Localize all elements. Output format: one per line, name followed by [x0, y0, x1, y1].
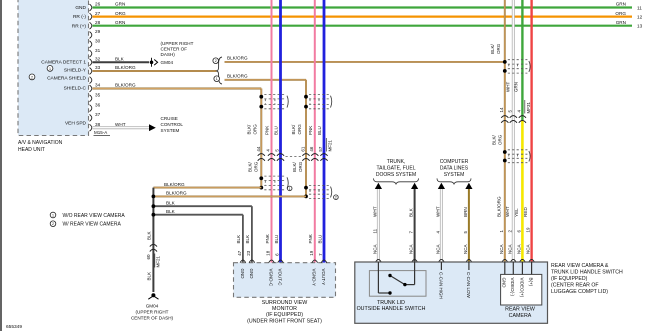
system arrows text TRUNK TAILGATE FUEL DOORS SYSTEM — [374, 159, 419, 184]
wire BLK/ORG variant 2 — [225, 55, 505, 62]
svg-text:ORG: ORG — [253, 124, 258, 135]
wire labels PNK BLU above monitor pins 18 6 — [265, 234, 279, 243]
svg-text:VOUT-C: VOUT-C — [277, 269, 282, 287]
svg-text:CAMERA: CAMERA — [509, 313, 532, 319]
wire ORG pin 27 (RR -) to pin 12 — [73, 11, 643, 20]
svg-text:C-CAN HIGH: C-CAN HIGH — [438, 272, 443, 299]
svg-text:57: 57 — [318, 146, 323, 152]
wire labels group C bottom — [496, 196, 528, 217]
svg-text:VOUT-Y: VOUT-Y — [321, 269, 326, 286]
svg-text:BLK/ORG: BLK/ORG — [496, 196, 501, 217]
wire BLK row 4 to monitor pin 47 — [153, 209, 243, 263]
shield group C upper — [503, 60, 530, 73]
svg-text:RED: RED — [523, 207, 528, 217]
svg-text:BLU: BLU — [274, 126, 279, 135]
svg-text:HEAD UNIT: HEAD UNIT — [18, 147, 45, 153]
svg-text:BLK/: BLK/ — [292, 161, 297, 172]
svg-text:BLK/: BLK/ — [291, 124, 296, 135]
svg-text:SHIELD-Y: SHIELD-Y — [64, 68, 87, 74]
svg-text:11: 11 — [637, 6, 642, 11]
connector MF21 (ground wire) — [146, 244, 160, 267]
wire BRN computer pin 5 — [463, 183, 473, 262]
wire labels group B below connector — [292, 161, 303, 172]
svg-text:C-CAN LOW: C-CAN LOW — [466, 272, 471, 299]
svg-text:19: 19 — [526, 227, 531, 233]
C-CAN HIGH / C-CAN LOW stubs — [438, 262, 471, 299]
empty pin 31 — [95, 48, 101, 53]
svg-text:32: 32 — [95, 57, 101, 62]
svg-text:DATA LINES: DATA LINES — [440, 165, 469, 171]
connector M15-A pin brackets — [90, 4, 111, 135]
svg-text:PNK: PNK — [308, 126, 313, 135]
empty pin 37 — [95, 112, 101, 117]
svg-text:BRN: BRN — [463, 207, 468, 217]
wire RED group C vertical — [530, 0, 532, 262]
wire BLK/ORG row 1 (shield A drain) — [153, 182, 261, 188]
svg-text:BLK: BLK — [115, 57, 125, 62]
svg-text:WHT: WHT — [372, 206, 377, 217]
empty pin 35 — [95, 93, 101, 98]
svg-text:33: 33 — [95, 65, 101, 70]
svg-text:NCA: NCA — [372, 244, 377, 254]
svg-text:ORG: ORG — [497, 134, 502, 145]
svg-text:CONTROL: CONTROL — [161, 122, 184, 127]
surround view monitor box — [234, 263, 336, 325]
wire WHT computer pin 4 — [435, 183, 445, 262]
svg-text:(UPPER RIGHT: (UPPER RIGHT — [136, 310, 169, 315]
wire GRN pin 28 (RR +) to pin 13 — [72, 20, 643, 29]
svg-text:TRUNK LID: TRUNK LID — [377, 300, 405, 306]
svg-text:VGND-C: VGND-C — [268, 269, 273, 287]
monitor pin brackets and numbers — [237, 250, 327, 262]
svg-text:MONITOR: MONITOR — [272, 306, 297, 312]
svg-text:YEL: YEL — [514, 208, 519, 217]
shield group B lower, variant 2 — [304, 185, 338, 199]
svg-text:(UNDER RIGHT FRONT SEAT): (UNDER RIGHT FRONT SEAT) — [247, 318, 322, 324]
svg-text:BLK/: BLK/ — [247, 124, 252, 135]
svg-text:GRN: GRN — [115, 20, 125, 25]
svg-text:BLU: BLU — [317, 126, 322, 135]
svg-text:BLK: BLK — [166, 200, 176, 205]
svg-text:28: 28 — [95, 20, 101, 25]
wire WHT pin 38 (VEH SPD) — [65, 121, 149, 128]
svg-text:NCA: NCA — [507, 244, 512, 254]
svg-text:BLK/ORG: BLK/ORG — [166, 191, 187, 196]
wire BLK/ORG pin 33 (SHIELD-Y) — [47, 65, 217, 73]
svg-text:B(+): B(+) — [529, 278, 534, 287]
svg-text:ORG: ORG — [297, 124, 302, 135]
svg-text:MF21: MF21 — [156, 256, 161, 268]
wire labels BLK BLK above monitor pins 47 23 — [236, 235, 250, 244]
svg-text:SYSTEM: SYSTEM — [161, 128, 180, 133]
svg-text:BLK/ORG: BLK/ORG — [227, 55, 248, 60]
node variant 2 — [213, 58, 219, 64]
svg-text:BLK: BLK — [146, 231, 151, 240]
A/V & navigation head unit box — [18, 0, 89, 153]
svg-text:GM04: GM04 — [161, 60, 174, 65]
wire GRN group C upper / YEL lower — [521, 0, 523, 262]
svg-text:14: 14 — [499, 107, 504, 113]
wire labels group C above — [490, 43, 518, 92]
legend variant 1 — [50, 212, 125, 219]
svg-text:BLK/ORG: BLK/ORG — [164, 182, 185, 187]
wire BLK row 3 to monitor pin 23 — [153, 200, 252, 262]
drawing number — [6, 324, 22, 330]
wire BLK ground vertical — [146, 188, 155, 292]
svg-text:LUGGAGE COMPT LID): LUGGAGE COMPT LID) — [551, 289, 608, 295]
svg-text:31: 31 — [95, 48, 101, 53]
svg-text:NCA: NCA — [499, 244, 504, 254]
svg-text:BLK/: BLK/ — [490, 43, 495, 54]
wire BLK pin 32 (CAMERA DETECT 1) — [41, 57, 149, 66]
monitor pin names — [240, 269, 326, 287]
wire PNK group A — [271, 0, 273, 263]
svg-text:VGND-Y: VGND-Y — [312, 269, 317, 287]
wire labels group A below connector — [247, 161, 258, 172]
svg-text:WHT: WHT — [115, 122, 126, 127]
svg-text:BLK/ORG: BLK/ORG — [115, 83, 136, 88]
svg-text:CAMERA SHIELD: CAMERA SHIELD — [47, 76, 86, 82]
shield group A upper — [259, 95, 288, 109]
svg-text:TRUNK LID HANDLE SWITCH: TRUNK LID HANDLE SWITCH — [551, 270, 623, 276]
svg-text:23: 23 — [246, 250, 251, 256]
svg-text:30: 30 — [95, 39, 101, 44]
wire BLK/ORG row 2 (shield B drain) — [153, 191, 306, 197]
svg-text:VEH SPD: VEH SPD — [65, 121, 87, 127]
wire labels group B above connector — [291, 124, 322, 135]
svg-text:27: 27 — [95, 11, 101, 16]
wire GRN pin 26 (GND) to pin 11 — [75, 2, 642, 11]
svg-text:TRUNK,: TRUNK, — [387, 159, 406, 165]
empty pin 30 — [95, 39, 101, 44]
label CAMERA SHIELD — [29, 74, 86, 82]
wire BLU group B — [323, 0, 326, 263]
svg-text:VIDEO(-): VIDEO(-) — [510, 278, 515, 297]
svg-text:ORG: ORG — [253, 161, 258, 172]
wire WHT group C vertical — [512, 0, 515, 262]
group C pins and NCA — [499, 227, 535, 262]
svg-text:TAILGATE, FUEL: TAILGATE, FUEL — [377, 165, 416, 171]
svg-text:GND: GND — [249, 269, 254, 280]
trunk lid outside handle switch — [357, 262, 426, 312]
rear view camera unit — [501, 262, 542, 319]
svg-text:MF21: MF21 — [327, 140, 332, 152]
svg-text:44: 44 — [256, 146, 261, 152]
ground GM04 lower — [131, 293, 174, 320]
svg-text:2: 2 — [335, 196, 337, 200]
wire BLK/ORG pin 34 (SHIELD-C) — [64, 83, 262, 92]
svg-text:NCA: NCA — [526, 244, 531, 254]
svg-text:BLK: BLK — [236, 235, 241, 244]
svg-text:ORG: ORG — [496, 43, 501, 54]
svg-text:(UPPER RIGHT: (UPPER RIGHT — [161, 41, 194, 46]
shield group C lower — [503, 150, 530, 163]
svg-text:(IF EQUIPPED): (IF EQUIPPED) — [551, 276, 588, 282]
connector MF21 (in-line, groups A and B) — [256, 138, 333, 161]
svg-text:OUTSIDE HANDLE SWITCH: OUTSIDE HANDLE SWITCH — [357, 306, 426, 312]
svg-text:GRN: GRN — [514, 82, 519, 92]
svg-text:36: 36 — [95, 102, 101, 107]
shield group A lower, variant 1 — [259, 176, 292, 191]
svg-text:A/V & NAVIGATION: A/V & NAVIGATION — [18, 140, 63, 146]
wire labels group A above connector — [247, 124, 279, 135]
svg-text:BLU: BLU — [317, 235, 322, 244]
wire WHT trunk pin 11 — [372, 183, 382, 262]
wire PNK group B — [314, 0, 316, 263]
svg-text:SHIELD-C: SHIELD-C — [64, 86, 87, 92]
svg-text:DASH): DASH) — [161, 52, 176, 57]
svg-text:ORG: ORG — [298, 161, 303, 172]
wire BLK trunk pin 7 — [409, 183, 419, 262]
svg-text:(CENTER REAR OF: (CENTER REAR OF — [551, 283, 599, 289]
svg-text:655349: 655349 — [6, 324, 22, 330]
svg-text:1: 1 — [216, 77, 218, 81]
svg-text:PNK: PNK — [265, 126, 270, 135]
svg-text:1: 1 — [289, 187, 291, 191]
svg-text:NCA: NCA — [435, 244, 440, 254]
svg-text:BLU: BLU — [274, 235, 279, 244]
shield group B upper — [304, 95, 332, 109]
arrow to cruise control system — [149, 116, 183, 133]
svg-text:BLK: BLK — [409, 207, 414, 217]
svg-text:ORG: ORG — [115, 11, 126, 16]
svg-text:34: 34 — [95, 83, 101, 88]
svg-text:ORG: ORG — [615, 11, 626, 16]
svg-text:BLK: BLK — [166, 209, 176, 214]
svg-text:61: 61 — [301, 146, 306, 152]
svg-text:CAMERA DETECT 1: CAMERA DETECT 1 — [41, 60, 86, 66]
svg-text:RR (+): RR (+) — [72, 23, 87, 29]
svg-text:35: 35 — [95, 93, 101, 98]
svg-text:GRN: GRN — [616, 20, 626, 25]
rear view camera and trunk lid handle switch box — [355, 262, 548, 323]
svg-text:13: 13 — [637, 24, 643, 29]
svg-text:W/O REAR VIEW CAMERA: W/O REAR VIEW CAMERA — [63, 213, 126, 219]
rear box caption — [551, 263, 623, 295]
svg-text:MF31: MF31 — [526, 102, 531, 114]
svg-text:BLK/: BLK/ — [491, 134, 496, 145]
empty pin 29 — [95, 29, 101, 34]
svg-text:REAR VIEW: REAR VIEW — [505, 307, 535, 313]
svg-text:CENTER OF: CENTER OF — [161, 46, 188, 51]
svg-text:GND: GND — [75, 5, 86, 11]
svg-text:GM04: GM04 — [146, 303, 159, 308]
svg-text:26: 26 — [95, 2, 101, 7]
svg-text:RR (-): RR (-) — [73, 14, 86, 20]
svg-text:REAR VIEW CAMERA &: REAR VIEW CAMERA & — [551, 263, 609, 269]
svg-text:1: 1 — [49, 67, 51, 71]
wire BLK/ORG group A vertical (from pin 34) — [260, 89, 262, 188]
svg-text:SURROUND VIEW: SURROUND VIEW — [262, 300, 308, 306]
legend variant 2 — [50, 221, 121, 228]
frame edge line — [0, 0, 2, 331]
node variant 1 — [214, 76, 220, 82]
svg-text:PNK: PNK — [265, 234, 270, 243]
svg-text:PNK: PNK — [308, 234, 313, 243]
wire BLK/ORG group B vertical (variant 1 wire) — [305, 80, 307, 197]
svg-text:12: 12 — [637, 15, 643, 20]
svg-text:2: 2 — [31, 75, 33, 79]
ground GM04 upper — [150, 41, 194, 67]
svg-text:WHT: WHT — [505, 206, 510, 217]
svg-text:47: 47 — [237, 250, 242, 256]
svg-text:2: 2 — [52, 222, 54, 226]
wire label BLK/ORG group C below connector — [491, 134, 502, 145]
svg-text:38: 38 — [95, 122, 101, 127]
svg-text:GRN: GRN — [616, 2, 626, 7]
svg-text:18: 18 — [266, 250, 271, 256]
svg-text:BLK: BLK — [245, 235, 250, 244]
system arrows text COMPUTER DATA LINES SYSTEM — [437, 159, 471, 184]
svg-text:DOORS SYSTEM: DOORS SYSTEM — [376, 172, 416, 178]
svg-text:M15-A: M15-A — [94, 130, 107, 135]
svg-text:BLK/: BLK/ — [247, 161, 252, 172]
svg-text:19: 19 — [309, 250, 314, 256]
svg-text:60: 60 — [146, 254, 151, 260]
brace split pin 33 — [217, 57, 222, 84]
svg-text:BLK/ORG: BLK/ORG — [227, 73, 248, 78]
svg-text:CENTER OF DASH): CENTER OF DASH) — [131, 316, 174, 321]
svg-text:VIDEO(+): VIDEO(+) — [519, 278, 524, 298]
svg-text:11: 11 — [372, 228, 377, 233]
empty pin 36 — [95, 102, 101, 107]
svg-text:GRN: GRN — [115, 2, 125, 7]
svg-text:1: 1 — [52, 213, 54, 217]
svg-text:29: 29 — [95, 29, 101, 34]
svg-text:SYSTEM: SYSTEM — [444, 172, 465, 178]
connector MF31 — [499, 100, 531, 123]
svg-text:NCA: NCA — [409, 244, 414, 254]
svg-text:WHT: WHT — [506, 82, 511, 92]
svg-text:GND: GND — [240, 269, 245, 280]
svg-text:(IF EQUIPPED): (IF EQUIPPED) — [266, 312, 303, 318]
wire labels PNK BLU above monitor pins 19 7 — [308, 234, 322, 243]
svg-text:NCA: NCA — [463, 244, 468, 254]
wire BLU group A — [279, 0, 282, 263]
svg-text:BLK: BLK — [146, 272, 151, 281]
svg-text:GND: GND — [502, 278, 507, 289]
svg-text:2: 2 — [215, 59, 217, 63]
svg-text:CRUISE: CRUISE — [161, 116, 178, 121]
svg-text:W/ REAR VIEW CAMERA: W/ REAR VIEW CAMERA — [63, 222, 122, 228]
wire BLK/ORG group C vertical — [503, 0, 507, 262]
svg-text:COMPUTER: COMPUTER — [440, 159, 469, 165]
svg-text:BLK/ORG: BLK/ORG — [115, 65, 136, 70]
svg-text:WHT: WHT — [435, 206, 440, 217]
svg-text:46: 46 — [309, 146, 314, 152]
svg-text:NCA: NCA — [516, 244, 521, 254]
wire BLK/ORG variant 1 — [225, 73, 307, 80]
svg-text:37: 37 — [95, 112, 101, 117]
